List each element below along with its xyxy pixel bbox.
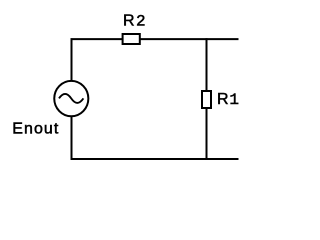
resistor R2 xyxy=(123,34,140,44)
svg-text:R2: R2 xyxy=(123,13,146,31)
ac source sine waveform xyxy=(59,94,83,103)
wire: top horizontal from left corner to R2 left terminal xyxy=(71,38,123,40)
wire: top horizontal from R2 right terminal to right open end xyxy=(140,38,239,40)
wire: left vertical from top-left corner down to source top xyxy=(71,38,73,81)
resistor R1 xyxy=(202,91,211,108)
wire: bottom horizontal from left corner to right open end xyxy=(71,158,239,160)
wire: left vertical from source bottom to bottom-left corner xyxy=(71,116,73,159)
ac source Enout xyxy=(54,81,88,116)
svg-text:R1: R1 xyxy=(217,91,239,109)
wire: right branch vertical from R1 bottom down to bottom node xyxy=(206,108,208,160)
svg-text:Enout: Enout xyxy=(12,120,59,137)
wire: right branch vertical from top node down to R1 top xyxy=(206,38,208,91)
